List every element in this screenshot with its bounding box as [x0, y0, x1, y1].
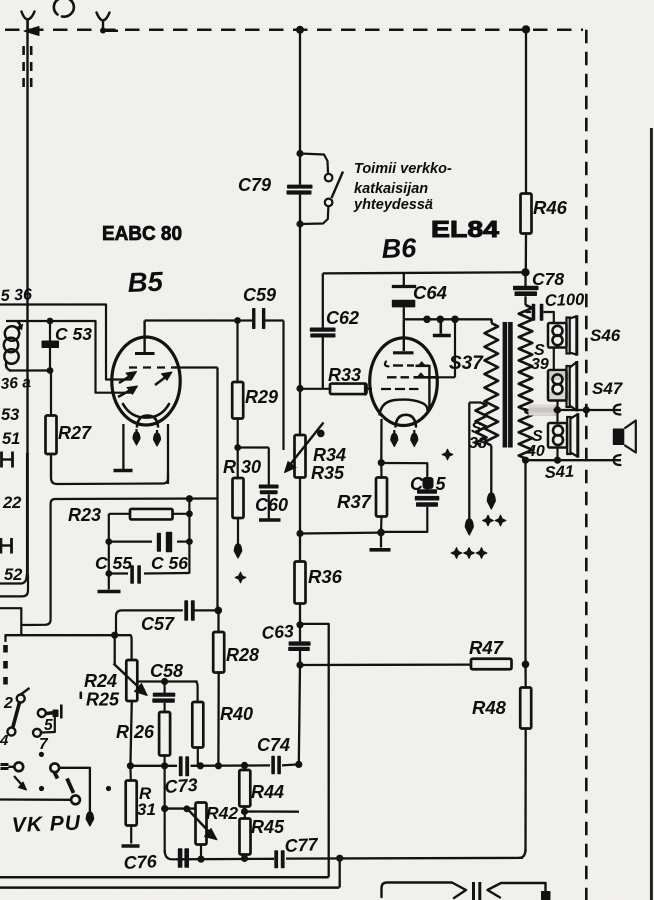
C60 end bar: [259, 518, 281, 521]
svg-text:31: 31: [137, 800, 156, 819]
node b: [437, 316, 445, 324]
decorative circle terminal: [54, 0, 74, 17]
svg-text:C 53: C 53: [55, 324, 92, 344]
svg-text:4: 4: [0, 732, 9, 749]
svg-text:R29: R29: [245, 387, 278, 407]
wire x=164.7 drop: [164, 766, 166, 853]
switch contact circle lower: [325, 199, 333, 207]
wire y=765.8: [130, 765, 177, 767]
plus mark single: [442, 449, 453, 460]
wire x=51 drop: [21, 499, 55, 625]
dashed guide left of feed: [22, 46, 25, 94]
resistor R45: [240, 819, 251, 855]
wire C56 row: [109, 540, 152, 542]
svg-text:katkaisijan: katkaisijan: [354, 181, 428, 197]
cap symbol H (cut): [1, 458, 12, 460]
speaker S40t box: [548, 423, 567, 448]
core bar right: [508, 322, 513, 448]
capacitor C74: [271, 756, 275, 775]
svg-text:R28: R28: [226, 645, 259, 665]
node tap2: [583, 406, 590, 413]
wire: coil bottom to C53 node: [9, 369, 50, 371]
resistor R23: [109, 513, 130, 515]
capacitor C77: [274, 850, 278, 868]
svg-text:C76: C76: [123, 851, 158, 873]
svg-text:R 30: R 30: [223, 457, 261, 477]
B6 grid3 dashes: [381, 388, 391, 390]
svg-text:R40: R40: [220, 704, 253, 724]
node r28 bottom: [215, 762, 222, 769]
svg-text:52: 52: [4, 566, 22, 584]
B5 diode anode arrow 2: [155, 375, 169, 386]
wire: top supply rail (dashed): [5, 29, 583, 32]
switch contact K4: [33, 729, 41, 737]
node y499/x189: [186, 495, 193, 502]
svg-text:R45: R45: [251, 817, 285, 837]
B6 cathode arc: [396, 415, 417, 427]
svg-text:yhteydessä: yhteydessä: [353, 197, 433, 213]
svg-text:C73: C73: [164, 775, 198, 797]
svg-text:51: 51: [2, 430, 20, 448]
S38 bottom arrow: [465, 519, 473, 535]
wire y=410 tap: [526, 409, 622, 411]
svg-text:7: 7: [39, 736, 49, 753]
outer corner below 52 box: [0, 575, 28, 596]
R33 right bar terminal: [367, 388, 373, 390]
wire S47 to tap: [556, 401, 558, 424]
resistor R44: [243, 765, 245, 770]
wire: B5 grid to x=217.5: [174, 366, 218, 368]
svg-text:39: 39: [531, 356, 549, 373]
svg-text:C78: C78: [532, 269, 564, 289]
svg-text:S47: S47: [592, 379, 624, 398]
wire C60 to bar: [268, 495, 270, 519]
wire y=811.5: [245, 810, 299, 813]
svg-text:R34: R34: [313, 445, 346, 465]
svg-text:EABC 80: EABC 80: [102, 222, 182, 245]
smudge below S47 coil: [548, 392, 570, 401]
svg-text:C62: C62: [326, 308, 359, 328]
R30 bottom arrow: [234, 544, 242, 558]
node R29 top: [234, 317, 241, 324]
fade on tap wire: [529, 405, 554, 416]
junction arrow at rail / antenna line: [24, 27, 39, 36]
svg-text:C74: C74: [257, 735, 290, 755]
wire: B5 top to C59 node: [145, 319, 238, 321]
capacitor C64: [403, 272, 405, 285]
wire bypass corner: [300, 624, 329, 877]
next-stage primary loop: [382, 883, 467, 899]
ground bar below R31: [122, 844, 140, 847]
resistor R26: [159, 712, 170, 756]
B6 cathode pin wire: [380, 419, 383, 463]
wire: x=300 from rail down to C79: [299, 30, 301, 155]
wire y=858.5 bottom rail: [176, 858, 274, 861]
internal shield stub: [439, 319, 442, 334]
R34 wiper diagonal: [289, 423, 324, 467]
svg-text:C100: C100: [545, 291, 586, 310]
resistor R27: [50, 371, 52, 416]
plus mark below R30: [235, 572, 246, 583]
resistor R46: [521, 194, 532, 234]
wire y=499 corner: [55, 497, 218, 500]
svg-text:C64: C64: [413, 282, 447, 303]
wire: screen riser: [454, 319, 456, 377]
R34 wiper arrowhead: [285, 462, 297, 473]
wire: y=321 horizontal: [6, 321, 133, 393]
capacitor C62: [322, 273, 324, 327]
svg-text:38: 38: [469, 435, 487, 452]
wire x=299 drop: [299, 665, 300, 764]
svg-text:R37: R37: [337, 491, 373, 512]
svg-text:C63: C63: [261, 621, 295, 643]
node tap3: [554, 457, 561, 464]
B6 heater arrow right: [413, 430, 415, 437]
B5 bottom arc: [137, 416, 158, 427]
small diagonal arrow: [14, 776, 22, 785]
wire y=665 to R47: [300, 663, 471, 666]
node x164 y808: [161, 805, 168, 812]
svg-text:53: 53: [1, 406, 19, 424]
svg-text:40: 40: [526, 443, 545, 460]
svg-text:R46: R46: [533, 197, 568, 218]
svg-text:5 36: 5 36: [0, 286, 32, 305]
wire C55 row: [109, 572, 128, 574]
svg-text:22: 22: [2, 494, 21, 512]
node R47 right: [522, 661, 530, 669]
resistor R31: [129, 766, 132, 781]
terminal double tick: [1, 763, 9, 766]
capacitor C63: [289, 641, 311, 645]
B5 heater pin arrow left: [135, 429, 137, 435]
R42 wiper arrowhead: [205, 829, 218, 840]
svg-text:C59: C59: [243, 285, 276, 305]
wire K6 to PU arrow: [59, 768, 90, 812]
dot mark b: [39, 786, 44, 791]
node c55 left: [105, 570, 112, 577]
wire to C65 top: [381, 463, 427, 490]
wire C59 right to grid corner: [238, 319, 254, 321]
svg-text:B5: B5: [127, 266, 164, 298]
dashed drop below: [3, 645, 8, 689]
wire R23 vertical x=189.4: [188, 499, 190, 574]
wire to R40: [195, 682, 198, 703]
dot mark a: [39, 752, 44, 757]
svg-text:C79: C79: [238, 175, 271, 195]
svg-text:C57: C57: [141, 614, 175, 634]
box outline around 52 (cut): [26, 453, 29, 577]
B5 anode top T-bar: [135, 352, 155, 355]
svg-text:5: 5: [436, 474, 447, 494]
resistor R37: [376, 478, 387, 517]
corner left y635: [4, 635, 6, 641]
capacitor C65 stack: [417, 489, 437, 493]
speaker S40t coil: [553, 426, 563, 436]
wire S40t bottom: [556, 448, 558, 461]
wire from K4: [41, 716, 55, 733]
wire: long vertical antenna feed x=27.5: [26, 19, 28, 455]
switch blade K1: [13, 703, 20, 729]
wire y=608 stub: [0, 608, 21, 635]
speaker S47 coil: [553, 374, 563, 384]
B5 cathode pin wire right: [167, 424, 169, 484]
resistor R40: [192, 702, 203, 748]
svg-text:R27: R27: [58, 423, 92, 443]
node S40 top: [524, 408, 526, 413]
tube B5 envelope: [112, 337, 180, 425]
external speaker: [613, 429, 625, 446]
B6 ground stem: [380, 532, 382, 547]
potentiometer R34 R35 body: [299, 389, 301, 436]
B5 ground pin wire: [122, 424, 124, 469]
svg-text:R36: R36: [308, 566, 343, 587]
contact blade K3: [46, 713, 56, 714]
node r26 bottom: [161, 762, 168, 769]
border line A: [0, 876, 329, 879]
node y858 x339.7: [336, 855, 343, 862]
resistor R30: [237, 448, 239, 479]
B6 grid2 dashes: [387, 376, 397, 378]
wire to K5: [9, 766, 15, 768]
resistor R28: [217, 610, 219, 632]
svg-text:C77: C77: [284, 834, 319, 856]
antenna terminal Y2: [97, 13, 110, 21]
node R36 bottom: [296, 621, 303, 628]
svg-text:R33: R33: [328, 365, 361, 385]
capacitor C60 plates: [259, 485, 279, 489]
resistor R47: [471, 659, 512, 670]
node y635 x114.7: [111, 632, 118, 639]
speaker S47 box: [548, 370, 567, 401]
plus mark pair: [483, 515, 494, 526]
speaker S46 box: [548, 323, 567, 348]
smudge at wire 410: [530, 405, 557, 416]
node R29 bottom: [234, 444, 241, 451]
svg-text:C60: C60: [255, 495, 288, 515]
node c: [451, 316, 459, 324]
resistor R33: [330, 384, 367, 395]
corner R48 to bottom rail: [519, 849, 526, 858]
capacitor C76: [178, 848, 183, 868]
svg-text:R24: R24: [84, 671, 117, 691]
node C57 right: [215, 607, 223, 615]
switch contact K5: [14, 762, 23, 771]
primary winding S37: [490, 319, 493, 323]
svg-text:R35: R35: [311, 463, 345, 483]
secondary winding S40: [519, 412, 533, 459]
next-stage terminal: [541, 891, 551, 900]
svg-text:C: C: [410, 474, 424, 494]
node tap1: [554, 406, 561, 413]
node R33 left: [296, 385, 303, 392]
speaker S46 horn: [567, 318, 570, 354]
wire y=635 long: [6, 634, 131, 636]
B6 beam plate curve: [380, 400, 428, 415]
svg-text:R47: R47: [469, 637, 505, 658]
B6 grid1 dashes: [385, 362, 389, 367]
R24 wiper arrowhead: [135, 684, 148, 696]
speaker S47 horn: [567, 366, 570, 407]
capacitor C59: [252, 308, 255, 329]
wire R33 left: [300, 388, 330, 390]
wire x=525 mid: [524, 460, 526, 664]
wire C57 row: [116, 610, 182, 635]
capacitor C78: [524, 272, 526, 286]
R24 wiper: [114, 635, 116, 664]
S37 bottom arrow: [487, 493, 495, 509]
node pot bottom R31: [127, 762, 134, 769]
node c74 right: [295, 761, 302, 768]
ground bar below C55 block: [108, 588, 110, 591]
capacitor C55: [130, 565, 134, 584]
coil L36 loops: [5, 326, 19, 340]
wire cathode y=484: [51, 454, 168, 484]
capacitor C100: [526, 311, 532, 313]
speaker S40t horn: [567, 417, 570, 454]
capacitor C79 plates: [287, 185, 313, 189]
speaker S46 coil: [553, 326, 563, 336]
B5 heater pin arrow right: [156, 430, 158, 436]
svg-text:S46: S46: [590, 326, 621, 345]
antenna terminal Y1: [22, 12, 35, 20]
dashed border vertical: [585, 30, 588, 900]
wire y=460 bottom tap: [526, 459, 622, 461]
wire S46 to S47: [553, 348, 555, 371]
node S40 bottom junction: [522, 457, 529, 464]
wire: screen node y=319.3: [404, 318, 492, 320]
B5 diode anode arrow 3: [118, 388, 134, 397]
svg-text:C 55: C 55: [95, 553, 132, 573]
switch contact K1: [17, 695, 25, 703]
B6 internal screen rail: [428, 365, 430, 411]
cap symbol H2 (cut): [0, 544, 11, 546]
svg-text:S41: S41: [544, 462, 574, 482]
wire pot node to R37 node: [300, 531, 381, 534]
tube B6 envelope: [370, 338, 438, 426]
capacitor C57: [184, 600, 188, 621]
switch contact K3: [38, 709, 46, 717]
svg-text:C 56: C 56: [151, 553, 188, 573]
switch contact circle upper: [325, 174, 333, 182]
secondary winding S39: [524, 296, 526, 305]
R23 left drop: [108, 514, 110, 589]
wire: grid drop x=217.5: [216, 368, 218, 611]
wire from K7 left: [0, 798, 71, 801]
next-stage core: [472, 882, 475, 900]
node rail top R46: [522, 25, 530, 33]
svg-text:R44: R44: [251, 782, 284, 802]
blade to K7: [67, 779, 74, 794]
stray mark 1: [21, 688, 30, 695]
capacitor C56: [157, 533, 161, 552]
B5 grid dashed line: [129, 366, 176, 368]
node r44 bottom: [241, 808, 248, 815]
node r42 bottom: [197, 856, 204, 863]
wire: x=300 from C79 down to R33 node: [299, 224, 301, 389]
hook terminal lower: [614, 455, 621, 465]
right edge scan line: [650, 128, 653, 900]
svg-text:R 26: R 26: [116, 722, 155, 742]
svg-text:R48: R48: [472, 697, 507, 718]
svg-text:S37: S37: [449, 353, 484, 374]
node C63 bottom: [296, 661, 303, 668]
wire: C79 stem: [299, 154, 301, 185]
next-stage secondary: [488, 883, 546, 898]
switch contact K2: [7, 728, 15, 736]
node C53 bottom: [47, 367, 54, 374]
node C78 top: [521, 268, 529, 276]
node R37 top: [378, 459, 385, 466]
node C58: [161, 678, 168, 685]
wire: y=304.5 horizontal: [0, 305, 131, 380]
node R37 bottom: [377, 529, 385, 537]
wire C58 row: [138, 680, 198, 682]
node C53 top: [47, 318, 54, 325]
node: rail junction for C79 branch: [296, 26, 304, 34]
winding S38: [469, 401, 481, 403]
svg-text:R25: R25: [86, 690, 120, 710]
switch contact K7: [71, 795, 80, 804]
dashed guide right of feed: [30, 46, 33, 94]
node r45 bottom: [241, 855, 248, 862]
node c56 left: [105, 538, 112, 545]
svg-text:C58: C58: [150, 661, 183, 681]
blade below K6: [55, 773, 58, 779]
B5 cathode curve: [123, 404, 169, 418]
resistor R29: [236, 321, 238, 383]
node a: [423, 316, 431, 324]
svg-text:R23: R23: [68, 505, 101, 525]
dot mark c: [106, 786, 111, 791]
node on wiper: [317, 430, 325, 438]
svg-text:36 a: 36 a: [0, 374, 32, 393]
core bar left: [503, 322, 508, 448]
svg-text:Toimii verkko-: Toimii verkko-: [354, 161, 452, 177]
svg-text:R42: R42: [206, 803, 238, 823]
svg-text:VK PU: VK PU: [11, 812, 81, 837]
node c56 right: [186, 510, 193, 517]
node pot bottom: [296, 530, 303, 537]
switch contact K6: [50, 763, 59, 772]
svg-text:B6: B6: [381, 233, 418, 264]
capacitor C73: [179, 756, 183, 776]
smudge near S47: [549, 372, 569, 380]
resistor R36: [295, 562, 306, 604]
switch branch lower wire: [300, 206, 328, 224]
potentiometer R42: [196, 803, 207, 845]
resistor R48: [524, 664, 527, 687]
B6 anode stem: [403, 319, 405, 351]
wire C65 bottom loop: [381, 507, 427, 532]
switch branch upper wire: [300, 154, 328, 174]
wire y=808.6: [165, 807, 196, 809]
switch blade: [332, 172, 344, 199]
R42 wiper: [188, 810, 212, 836]
ground bar below R37: [370, 548, 391, 552]
ground bar below B5: [114, 469, 133, 472]
hook terminal upper: [614, 405, 621, 415]
node: C79 top junction: [296, 150, 303, 157]
plus mark triple: [451, 548, 462, 559]
capacitor C53: [49, 321, 51, 341]
wire R46 from top rail: [525, 29, 527, 193]
svg-text:2: 2: [3, 695, 13, 712]
PU arrow: [86, 812, 94, 826]
B5 diode anode arrow 1: [119, 374, 133, 383]
node r40 bottom: [197, 762, 204, 769]
B6 heater arrow left: [393, 430, 395, 437]
border line B: [0, 886, 339, 889]
